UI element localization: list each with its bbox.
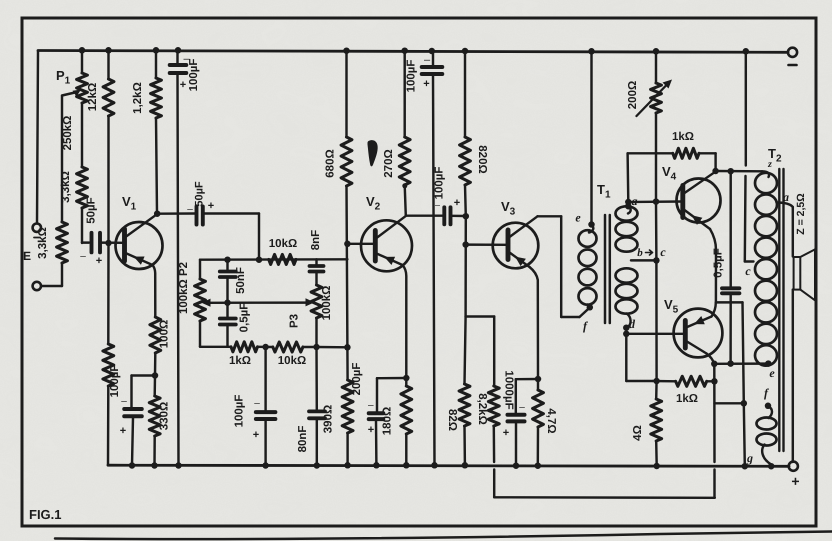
wire z line — [716, 170, 762, 173]
wire T1 center tap — [631, 259, 656, 261]
node V3 base junction — [462, 241, 469, 248]
resistor 82R — [459, 317, 470, 466]
node rail-405 — [401, 47, 408, 54]
wire to 1k — [653, 380, 676, 383]
potentiometer P3 wiper arrow — [306, 298, 315, 306]
node gnd-178 — [175, 462, 182, 469]
label 8.2kOhm — [476, 393, 488, 425]
svg-text:1000µF: 1000µF — [503, 370, 515, 409]
svg-text:e: e — [769, 366, 775, 380]
node gnd-434 — [431, 462, 438, 469]
label f T1 — [583, 319, 588, 333]
label 0.5uF — [239, 303, 251, 333]
svg-text:200Ω: 200Ω — [627, 81, 639, 109]
wire V3 base column — [464, 216, 467, 316]
svg-text:4Ω: 4Ω — [632, 425, 644, 441]
resistor 180R — [401, 378, 412, 465]
wire P1 wiper vertical — [61, 96, 63, 222]
label 180R — [382, 407, 394, 435]
node V1 collector — [154, 210, 161, 217]
svg-text:82Ω: 82Ω — [446, 409, 458, 431]
label T2 — [768, 146, 782, 165]
wire bias line lower — [655, 260, 658, 381]
svg-text:250kΩ: 250kΩ — [62, 116, 74, 151]
resistor unlabeled bias (x108) — [103, 243, 114, 465]
label E — [23, 238, 40, 264]
node gnd-265 — [262, 462, 269, 469]
node 0.5uF top — [727, 168, 734, 175]
label a T1 — [632, 194, 638, 208]
wire V1 base — [100, 241, 124, 244]
wire 1000uF branch — [516, 379, 538, 414]
wire 10k to P3 bottom — [303, 346, 317, 348]
wire 1k to collector node — [699, 153, 716, 171]
svg-text:–: – — [254, 398, 260, 409]
svg-text:390Ω: 390Ω — [323, 405, 335, 433]
node rail-432 — [429, 48, 436, 55]
svg-text:–: – — [187, 204, 193, 215]
node rail-346 — [343, 47, 350, 54]
label V2 — [366, 194, 381, 213]
capacitor 0.5uF — [220, 303, 236, 347]
label 820R — [476, 145, 488, 173]
wire speaker to terminal — [792, 290, 794, 462]
label 1.2kOhm — [132, 82, 144, 114]
wire a up — [628, 153, 673, 202]
label 1kOhm V4 — [672, 131, 694, 143]
svg-text:+: + — [454, 197, 460, 209]
node T1 tap — [653, 257, 660, 264]
wire V5 collector exit — [707, 354, 715, 364]
node feed junction — [256, 256, 263, 263]
svg-text:a: a — [783, 190, 789, 204]
node wiper-227 — [224, 299, 231, 306]
label 12kOhm — [87, 83, 99, 111]
label 250kOhm — [62, 116, 74, 151]
svg-text:+: + — [180, 79, 186, 91]
potentiometer P3 track — [311, 285, 322, 347]
wire T1 e to rail — [590, 51, 592, 224]
capacitor 50uF input — [82, 233, 100, 253]
label c T1 — [660, 245, 666, 259]
label 0.5uF output — [713, 248, 725, 278]
node T1 e — [588, 221, 595, 228]
svg-text:1kΩ: 1kΩ — [229, 355, 251, 367]
label 100uF coupling — [434, 167, 461, 210]
svg-text:z: z — [767, 159, 772, 170]
label 390R — [323, 405, 335, 433]
node T1 d — [623, 324, 630, 331]
wire emitter return to rail — [744, 403, 745, 466]
capacitor 200uF — [369, 413, 384, 465]
node base-12k junction — [105, 240, 112, 247]
transformer T1 secondary — [616, 206, 638, 327]
node a-base — [625, 199, 632, 206]
wire bias line mid — [655, 202, 658, 261]
svg-text:b: b — [637, 247, 643, 259]
wire to V2 base column — [317, 346, 348, 349]
label 200R — [627, 81, 639, 109]
svg-text:180Ω: 180Ω — [382, 407, 394, 435]
capacitor 1000uF — [508, 415, 525, 466]
svg-text:–: – — [368, 400, 374, 411]
transistor V3 — [493, 216, 539, 268]
node d-base — [623, 331, 630, 338]
label e T1 — [575, 211, 581, 225]
label T1 — [597, 182, 611, 201]
svg-text:80nF: 80nF — [297, 426, 309, 453]
wire T2 c tap — [745, 260, 754, 262]
wire V2 base — [347, 243, 375, 245]
node V1 emitter-376 — [152, 372, 159, 379]
node rail-82 — [79, 47, 86, 54]
svg-text:100kΩ P2: 100kΩ P2 — [178, 262, 190, 314]
transformer T1 core — [605, 215, 610, 323]
label 1kOhm tone — [229, 355, 251, 367]
label P1 — [56, 68, 71, 87]
node rail-108 — [105, 47, 112, 54]
node V2 base column bottom — [344, 344, 351, 351]
svg-text:100kΩ: 100kΩ — [321, 286, 333, 321]
label V5 — [664, 297, 679, 316]
wire rail corner down to input — [37, 51, 38, 224]
resistor 3.3k input (vertical) — [57, 222, 68, 286]
wire input bottom to 3.3k — [41, 285, 62, 287]
node rail-178 — [175, 47, 182, 54]
transistor V4 — [677, 172, 721, 229]
transistor V2 — [361, 216, 412, 271]
capacitor 8nF — [310, 259, 324, 285]
svg-text:680Ω: 680Ω — [325, 149, 337, 177]
svg-text:E: E — [23, 249, 31, 263]
resistor 12k — [103, 51, 114, 243]
wire e line — [714, 362, 768, 365]
svg-text:0,5µF: 0,5µF — [713, 248, 725, 278]
wire V2 emitter — [403, 265, 407, 378]
resistor 10k tone upper — [269, 254, 296, 264]
node rail-746 — [743, 48, 750, 55]
resistor 8.2k — [488, 386, 499, 497]
node gnd-538 — [535, 462, 542, 469]
svg-text:Z = 2,5Ω: Z = 2,5Ω — [795, 193, 807, 234]
label 1kOhm V5 — [676, 393, 698, 405]
label 3.3kOhm P1 — [60, 171, 72, 203]
svg-text:–: – — [183, 53, 190, 65]
svg-text:4,7Ω: 4,7Ω — [545, 408, 557, 433]
wire V3 collector — [538, 216, 590, 317]
transformer T2 secondary f-g — [757, 406, 777, 465]
svg-text:3,3kΩ: 3,3kΩ — [60, 171, 72, 203]
wire wiper bus P2-P3 — [206, 301, 310, 304]
label 50uF interstage — [187, 181, 214, 215]
node er-403 — [741, 400, 748, 407]
svg-text:e: e — [575, 211, 581, 225]
node e-line join — [711, 361, 718, 368]
node gnd-154 — [151, 462, 158, 469]
label 1000uF — [503, 370, 526, 439]
resistor 4.7R — [533, 379, 544, 466]
label g T2 — [746, 451, 753, 465]
wire V4 emitter — [710, 229, 716, 302]
capacitor 0.5uF output — [722, 171, 740, 363]
wire V4 base — [628, 200, 682, 203]
wire 50uF to feed corner — [203, 214, 259, 260]
node 50nF top — [224, 256, 231, 263]
label f T2 — [764, 386, 769, 400]
resistor 390R — [342, 347, 353, 465]
label c T2 — [745, 264, 751, 278]
label 100R — [159, 320, 171, 348]
arrow through 200R — [637, 80, 673, 117]
tap arrow mark — [646, 250, 653, 255]
node gnd-347 — [344, 462, 351, 469]
wire c tap riser lower — [744, 176, 747, 262]
label V4 — [662, 164, 677, 183]
svg-text:8,2kΩ: 8,2kΩ — [476, 393, 488, 425]
wire er branch — [715, 402, 744, 404]
node gnd-771 — [768, 463, 775, 470]
capacitor 100uF V1 bypass — [124, 409, 142, 465]
node rail-156 — [153, 47, 160, 54]
wire tone bottom line — [200, 346, 231, 348]
svg-text:50µF: 50µF — [86, 197, 98, 223]
svg-text:820Ω: 820Ω — [476, 145, 488, 173]
node P3 bottom — [313, 344, 320, 351]
label 200uF — [351, 363, 374, 436]
capacitor 100uF tone — [256, 347, 276, 466]
svg-text:3,3kΩ: 3,3kΩ — [37, 227, 49, 259]
svg-text:c: c — [745, 264, 751, 278]
transformer T2 core — [779, 169, 783, 451]
svg-text:+: + — [503, 427, 509, 439]
svg-text:50nF: 50nF — [235, 267, 247, 294]
resistor 1k tone — [231, 342, 258, 352]
label FIG.1 — [29, 507, 62, 522]
node V2 emitter-378 — [403, 375, 410, 382]
wire 1k to emitter node — [707, 380, 715, 382]
label 8nF — [310, 230, 322, 250]
resistor 1k V4 — [673, 148, 699, 158]
ink blob — [367, 140, 377, 166]
svg-text:+: + — [120, 425, 126, 437]
svg-text:–: – — [121, 396, 127, 407]
resistor 3.3k below P1 — [77, 167, 88, 243]
svg-text:8nF: 8nF — [310, 230, 322, 250]
node 1k-junction — [711, 378, 718, 385]
node T2 f — [765, 403, 772, 410]
resistor 100R emitter V1 — [150, 317, 161, 376]
wire V1 collector to 50uF — [157, 212, 195, 215]
svg-text:+: + — [208, 200, 214, 212]
svg-text:g: g — [746, 451, 753, 465]
wire V3 base — [466, 243, 508, 246]
node gnd-744 — [742, 463, 749, 470]
node gnd-656 — [653, 463, 660, 470]
wire rail end to terminal — [787, 51, 789, 53]
svg-text:+: + — [253, 429, 259, 441]
resistor 820R — [460, 51, 471, 216]
label 100uF decoupler — [406, 54, 431, 92]
node T1 f — [587, 304, 594, 311]
svg-text:100Ω: 100Ω — [159, 320, 171, 348]
resistor 10k tone lower — [273, 342, 303, 352]
label 50nF — [235, 267, 247, 294]
label 100kOhm P3 — [321, 286, 333, 321]
svg-text:+: + — [791, 473, 799, 489]
svg-text:–: – — [519, 402, 525, 413]
wire V5 emitter up — [712, 303, 716, 317]
svg-text:–: – — [80, 251, 86, 262]
wire coupling out — [451, 215, 466, 218]
svg-text:100µF: 100µF — [406, 60, 418, 93]
node gnd-516 — [513, 462, 520, 469]
svg-text:P3: P3 — [289, 314, 301, 328]
wire c tap riser upper — [745, 51, 747, 165]
svg-text:+: + — [368, 424, 374, 436]
wire top supply rail — [38, 51, 788, 53]
label V1 — [122, 194, 137, 213]
node 200R base junction — [653, 198, 660, 205]
capacitor 50uF interstage — [197, 207, 203, 225]
capacitor 100uF rail decoupler — [170, 51, 187, 465]
svg-text:1,2kΩ: 1,2kΩ — [132, 82, 144, 114]
svg-text:c: c — [660, 245, 666, 259]
svg-text:330Ω: 330Ω — [159, 402, 171, 430]
node rail-591 — [588, 48, 595, 55]
label z T2 — [767, 159, 772, 170]
resistor 680R — [341, 51, 352, 347]
label 100uF tone — [234, 395, 261, 441]
capacitor 100uF coupling — [444, 207, 450, 224]
wire T2 a tap — [777, 203, 793, 257]
svg-text:1kΩ: 1kΩ — [672, 131, 694, 143]
transformer T1 primary — [579, 225, 597, 308]
svg-text:270Ω: 270Ω — [383, 149, 395, 177]
node V2 base junction — [344, 241, 351, 248]
label V3 — [501, 199, 516, 218]
node V4 collector — [712, 168, 719, 175]
wire rail to terminal — [787, 465, 790, 467]
capacitor 100uF decoupler — [422, 51, 443, 465]
node gnd-406 — [403, 462, 410, 469]
wire feedback bottom — [494, 496, 715, 499]
label Z=2.5R — [795, 193, 807, 234]
label 10kOhm upper — [269, 238, 297, 250]
wire 1k-10k — [258, 346, 273, 349]
node e-0.5uF — [727, 360, 734, 367]
node rail-465 — [462, 48, 469, 55]
speaker — [794, 249, 815, 300]
svg-text:1kΩ: 1kΩ — [676, 393, 698, 405]
label 100kOhm P2 — [178, 262, 190, 314]
label 3.3kOhm input — [37, 227, 49, 259]
wire emitter return top — [716, 302, 744, 403]
label e T2 — [769, 366, 775, 380]
wire V1 emitter down — [153, 265, 156, 317]
node gnd-465 — [462, 462, 469, 469]
node rail-656 — [653, 48, 660, 55]
wire d down — [626, 334, 653, 381]
node gnd-131 — [129, 462, 136, 469]
svg-text:+: + — [96, 255, 102, 267]
transistor V5 — [674, 309, 723, 358]
svg-text:0,5µF: 0,5µF — [239, 303, 251, 333]
resistor 330R — [149, 376, 160, 466]
terminal input E bottom — [33, 282, 41, 290]
label 100uF top-left — [180, 53, 200, 91]
transistor V1 — [116, 214, 163, 269]
label 82R — [446, 409, 458, 431]
node gnd-316 — [314, 462, 321, 469]
node V3 emitter-379 — [535, 376, 542, 383]
label b T1 — [637, 247, 643, 259]
label a T2 — [783, 190, 789, 204]
capacitor 50nF — [220, 260, 236, 303]
potentiometer P1 wiper arrow — [62, 90, 81, 97]
svg-text:10kΩ: 10kΩ — [269, 238, 297, 250]
potentiometer P1 250k track — [77, 51, 88, 167]
wire bottom ground rail — [108, 465, 789, 466]
svg-text:FIG.1: FIG.1 — [29, 507, 62, 522]
label 680R — [325, 149, 337, 177]
label 10kOhm lower — [278, 355, 306, 367]
wire 8.2k branch — [466, 317, 495, 387]
scan streak bottom — [55, 532, 832, 540]
wire V5 base — [626, 333, 685, 335]
terminal plus (bottom right) — [789, 462, 800, 489]
label 4R — [632, 425, 644, 441]
node gnd-376 — [373, 462, 380, 469]
svg-text:–: – — [435, 200, 440, 210]
transformer T2 primary-main — [755, 171, 777, 365]
label 4.7R — [545, 408, 557, 433]
label 270R — [383, 149, 395, 177]
resistor 1.2k — [151, 51, 162, 214]
svg-text:100µF: 100µF — [434, 167, 446, 200]
label 50uF input — [80, 197, 102, 267]
svg-text:d: d — [629, 317, 636, 331]
resistor 1k V5 — [676, 376, 707, 386]
label 330R — [159, 402, 171, 430]
terminal minus (top right) — [788, 48, 797, 65]
wire V5 collector line — [713, 364, 716, 498]
node 4R top — [653, 378, 660, 385]
svg-text:+: + — [423, 78, 429, 90]
label d T1 — [629, 317, 636, 331]
node V3 feed 216 — [463, 213, 470, 220]
label P3 — [289, 314, 301, 328]
resistor 4R — [651, 381, 662, 466]
svg-text:100µF: 100µF — [188, 59, 200, 92]
node T2 bottom e — [765, 360, 772, 367]
resistor 270R — [399, 51, 444, 216]
svg-text:10kΩ: 10kΩ — [278, 355, 306, 367]
svg-text:50µF: 50µF — [194, 181, 206, 207]
potentiometer P2 track — [195, 260, 206, 347]
resistor 200R variable — [651, 51, 662, 201]
terminal input E top — [33, 224, 41, 232]
capacitor 80nF — [309, 347, 325, 466]
svg-text:100µF: 100µF — [234, 395, 246, 428]
node 100uF top — [262, 344, 269, 351]
label 100uF V1 bypass — [109, 365, 127, 437]
wire to 100uF bypass — [132, 376, 156, 408]
svg-text:12kΩ: 12kΩ — [87, 83, 99, 111]
wire V3 emitter — [530, 267, 539, 379]
potentiometer P2 wiper arrow — [202, 299, 211, 307]
wire tone top line — [200, 258, 347, 261]
svg-text:–: – — [424, 54, 431, 66]
